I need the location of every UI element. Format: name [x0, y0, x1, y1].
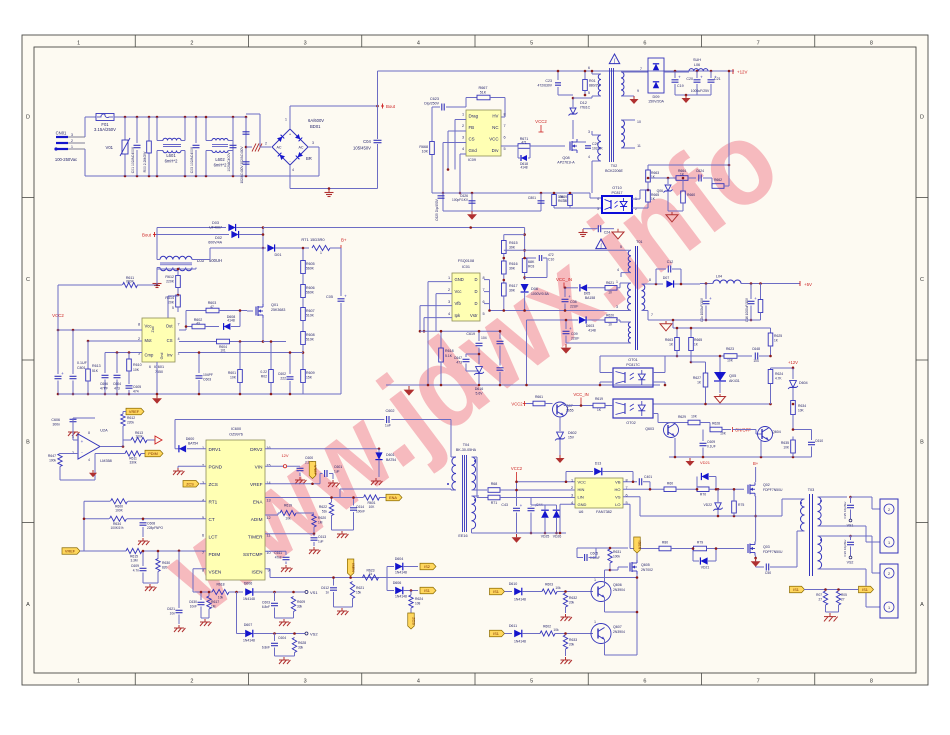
svg-text:8: 8 — [870, 41, 873, 47]
svg-text:NC: NC — [492, 125, 498, 130]
svg-text:C614: C614 — [356, 505, 364, 509]
svg-text:13: 13 — [266, 498, 270, 502]
svg-text:10k: 10k — [555, 586, 561, 590]
svg-text:R621: R621 — [606, 281, 614, 285]
svg-text:101: 101 — [220, 349, 226, 353]
diode D600 BAT54 — [187, 448, 206, 450]
wire VREF pin14 — [265, 483, 320, 485]
resistor R634 10K — [791, 401, 796, 415]
ground D601 — [375, 478, 377, 481]
transformer T04 core — [462, 455, 464, 532]
wire VS row — [623, 496, 640, 498]
capacitor C10 472 — [525, 257, 536, 259]
wire OT01 collector — [653, 372, 665, 374]
resistor R602b 10k — [540, 631, 555, 636]
svg-text:3: 3 — [616, 305, 618, 309]
svg-text:8: 8 — [503, 113, 505, 117]
resistor R635 10K — [791, 440, 796, 453]
resistor R609 15K — [302, 345, 304, 371]
resistor R671 471 — [501, 145, 518, 147]
svg-text:Bout: Bout — [386, 104, 396, 109]
ground PGND — [177, 468, 179, 471]
svg-text:472/630V: 472/630V — [537, 84, 552, 88]
svg-text:U2A: U2A — [100, 429, 108, 433]
svg-text:510K: 510K — [306, 338, 315, 342]
resistor R625 1K — [770, 328, 772, 333]
svg-text:R605: R605 — [306, 262, 315, 266]
svg-text:2: 2 — [571, 486, 573, 490]
wire T04 return to ENA area — [340, 488, 451, 490]
capacitor C603 104PF — [198, 353, 200, 374]
net flag IS1 left — [790, 586, 805, 593]
svg-text:6: 6 — [588, 66, 590, 70]
svg-text:R610: R610 — [133, 363, 142, 367]
svg-text:4: 4 — [597, 197, 599, 201]
net flag IS1 — [420, 587, 436, 594]
svg-text:R607: R607 — [306, 309, 315, 313]
resistor R612b 220k — [122, 412, 124, 415]
svg-text:7550: 7550 — [155, 370, 163, 374]
diode VD25 — [541, 510, 549, 518]
svg-text:B+: B+ — [341, 238, 347, 243]
capacitor C401 — [638, 478, 640, 485]
svg-text:R668: R668 — [419, 145, 428, 149]
svg-text:7: 7 — [177, 322, 179, 326]
net flag IS1 q607 — [490, 630, 505, 637]
svg-text:4: 4 — [417, 679, 420, 685]
svg-text:150V/20A: 150V/20A — [648, 100, 664, 104]
capacitor C609 0.1UF — [674, 438, 676, 457]
capacitor C05 — [340, 248, 342, 296]
svg-text:68K: 68K — [528, 260, 535, 264]
capacitor C610 — [811, 430, 813, 441]
svg-text:3: 3 — [71, 133, 73, 137]
svg-text:6A/600V: 6A/600V — [308, 118, 324, 123]
svg-text:R619: R619 — [284, 504, 292, 508]
svg-text:U6: U6 — [579, 510, 584, 514]
shunt reg Q05 AK431 — [719, 356, 721, 372]
capacitor C20 1000uF/25V — [696, 70, 699, 73]
net label Bout — [381, 105, 384, 107]
svg-text:R05: R05 — [841, 593, 847, 597]
svg-text:R621: R621 — [356, 586, 364, 590]
svg-text:2: 2 — [888, 508, 890, 512]
svg-text:R627: R627 — [693, 376, 701, 380]
resistor R662 — [712, 184, 724, 189]
svg-text:Drv: Drv — [492, 148, 500, 153]
transformer T04 primary — [452, 457, 456, 490]
capacitor C0x X2 pair — [245, 117, 247, 176]
svg-text:C19: C19 — [677, 84, 684, 88]
svg-text:+: + — [678, 75, 681, 80]
svg-text:C25 10p/6kv: C25 10p/6kv — [843, 501, 847, 518]
zener D12 ITB1C — [570, 108, 576, 114]
svg-text:2: 2 — [448, 288, 450, 292]
svg-text:IC601: IC601 — [154, 365, 164, 369]
svg-text:47PF: 47PF — [100, 387, 108, 391]
snubber C23 472/630V — [557, 71, 559, 80]
resistor R665b 1K — [690, 328, 692, 338]
svg-text:1uF: 1uF — [385, 424, 392, 428]
resistor R617b 1M — [208, 592, 210, 596]
svg-text:1uF: 1uF — [334, 470, 340, 474]
svg-text:1k: 1k — [369, 572, 373, 576]
svg-text:AP2761I-A: AP2761I-A — [557, 161, 575, 165]
resistor R647 100k — [60, 453, 73, 455]
svg-text:VCC2: VCC2 — [535, 119, 547, 124]
svg-text:10K: 10K — [230, 376, 237, 380]
svg-text:VS2: VS2 — [847, 561, 854, 565]
svg-text:Q604: Q604 — [772, 430, 781, 434]
svg-text:C2x 1000uF/10V: C2x 1000uF/10V — [700, 297, 704, 322]
svg-text:100k: 100k — [49, 459, 56, 463]
svg-text:VCC2: VCC2 — [511, 466, 523, 471]
transformer T02 primary — [591, 71, 593, 74]
capacitor C624 — [698, 175, 700, 182]
svg-text:22UF: 22UF — [570, 305, 578, 309]
svg-text:5: 5 — [530, 679, 533, 685]
resistor R623 1k — [363, 575, 379, 580]
transformer T03 core — [809, 494, 811, 576]
ground 12V filter — [675, 94, 711, 96]
wire opamp out — [100, 446, 123, 448]
svg-text:Out: Out — [166, 323, 174, 328]
svg-text:6.8nF: 6.8nF — [262, 605, 270, 609]
ground L03 — [156, 280, 158, 284]
capacitor C647 473 — [465, 354, 467, 357]
svg-text:C648: C648 — [752, 347, 760, 351]
capacitor C19 — [674, 70, 677, 73]
wire bottom rail EMI — [85, 175, 319, 177]
optocoupler OT01 PC817C — [613, 368, 653, 387]
wire B+ rail to T01 — [504, 249, 629, 251]
wire standby fb rail — [648, 164, 729, 166]
transistor Q606 2N3904 — [591, 582, 611, 602]
svg-text:D600: D600 — [186, 437, 195, 441]
capacitor C609b 4.7n — [142, 551, 144, 566]
capacitor C648 104 — [754, 353, 756, 360]
svg-text:D03: D03 — [212, 221, 219, 225]
ground C608 — [142, 538, 144, 541]
transistor Q07 2655 — [553, 402, 568, 417]
ground C613 — [313, 547, 315, 550]
svg-text:PDIM: PDIM — [209, 552, 221, 557]
wire Vcc cluster rail — [420, 330, 500, 332]
svg-text:R603: R603 — [545, 583, 553, 587]
resistor R629 10K — [658, 422, 688, 424]
ground R633 — [565, 657, 567, 660]
svg-text:RT1: RT1 — [209, 499, 218, 504]
svg-text:C605: C605 — [590, 552, 598, 556]
svg-text:C624: C624 — [696, 169, 704, 173]
svg-text:220K: 220K — [166, 280, 175, 284]
wire C602 to T04 — [450, 420, 452, 458]
transistor Q604 — [755, 430, 757, 435]
transformer T01 secondary — [642, 284, 645, 311]
svg-text:D05: D05 — [584, 292, 591, 296]
svg-text:RT1 15D3R0: RT1 15D3R0 — [301, 237, 325, 242]
svg-text:4: 4 — [617, 268, 619, 272]
svg-text:228pFNPO: 228pFNPO — [147, 526, 163, 530]
gate drive R603 47 — [179, 329, 186, 331]
diode VD26 — [553, 510, 561, 518]
svg-text:10K: 10K — [798, 409, 805, 413]
svg-text:SSTCMP: SSTCMP — [243, 552, 263, 557]
svg-text:1: 1 — [77, 41, 80, 47]
svg-text:C605: C605 — [133, 385, 141, 389]
capacitor C12 — [655, 269, 657, 284]
svg-text:4: 4 — [292, 168, 294, 172]
diode D07 +5V — [650, 283, 663, 285]
svg-text:5.1K: 5.1K — [445, 354, 453, 358]
ground C603 R609 — [275, 617, 294, 619]
svg-text:10K: 10K — [783, 446, 790, 450]
resistor R613p 51K — [87, 341, 89, 369]
svg-text:+: + — [709, 296, 712, 301]
svg-text:Q08: Q08 — [562, 156, 569, 160]
svg-text:R602: R602 — [543, 625, 551, 629]
svg-text:0.5: 0.5 — [563, 199, 568, 203]
wire IS diode split — [379, 577, 388, 579]
rectifier D09 150V/20A — [638, 71, 648, 73]
svg-text:9: 9 — [637, 89, 639, 93]
diode D02 600V/4A — [231, 231, 238, 238]
diode D618 4148 — [517, 146, 519, 158]
varistor V01 — [124, 117, 126, 140]
svg-text:C630: C630 — [189, 600, 197, 604]
capacitor C603b 6.8nF — [274, 592, 276, 601]
resistor R670 10K — [553, 193, 555, 195]
resistor R607 510K — [302, 298, 304, 309]
wire OT01 cathode — [600, 381, 613, 383]
svg-text:Q05: Q05 — [729, 374, 736, 378]
svg-text:0.22: 0.22 — [260, 370, 267, 374]
capacitor C16 1000uF/10V — [750, 282, 753, 285]
wire inverting input — [73, 453, 78, 455]
svg-text:R624: R624 — [775, 372, 783, 376]
svg-text:10K: 10K — [727, 359, 734, 363]
svg-text:6: 6 — [149, 365, 151, 369]
svg-text:2: 2 — [190, 679, 193, 685]
svg-text:BK-30-05HA: BK-30-05HA — [456, 448, 477, 452]
transformer T04 sec upper — [472, 457, 476, 490]
zener D604f — [790, 381, 797, 388]
capacitor C613 1uF — [311, 537, 318, 539]
wire standby gnd rail — [432, 192, 590, 194]
svg-text:472: 472 — [548, 253, 554, 257]
capacitor C43 — [513, 507, 520, 509]
resistor R622 51k — [331, 498, 333, 503]
capacitor C625 Dip/450V — [442, 193, 444, 211]
svg-text:R647: R647 — [48, 454, 56, 458]
svg-text:C23: C23 — [545, 79, 552, 83]
svg-text:Drag: Drag — [469, 114, 479, 119]
svg-text:VCC: VCC — [578, 479, 587, 484]
svg-text:B: B — [26, 439, 30, 445]
wire B standby top rail — [378, 70, 735, 72]
wire VSEN — [193, 568, 206, 570]
svg-text:27: 27 — [841, 598, 845, 602]
wire OT01 anode — [600, 372, 613, 374]
svg-text:27: 27 — [818, 598, 822, 602]
svg-text:1M: 1M — [318, 521, 323, 525]
wire chain top — [504, 234, 525, 236]
svg-text:R617: R617 — [211, 600, 219, 604]
connector CON1 — [880, 499, 898, 553]
svg-text:1: 1 — [888, 541, 890, 545]
ground C621 — [178, 625, 180, 628]
transformer T01 core — [635, 246, 637, 350]
svg-text:D602: D602 — [568, 431, 577, 435]
svg-text:CT: CT — [209, 517, 215, 522]
svg-text:Cmp: Cmp — [145, 353, 155, 358]
svg-text:15K: 15K — [306, 376, 313, 380]
svg-text:1N4148: 1N4148 — [395, 595, 407, 599]
transformer T04 sec lower — [472, 496, 476, 529]
svg-text:+: + — [569, 326, 572, 331]
resistor R663b 1K — [676, 328, 678, 338]
svg-text:1uF: 1uF — [318, 540, 324, 544]
svg-text:10K: 10K — [720, 432, 727, 436]
diode D601 BAT54 — [378, 447, 381, 450]
svg-text:C601: C601 — [334, 465, 342, 469]
svg-text:C603: C603 — [203, 378, 211, 382]
resistor R665s 0.5 — [569, 193, 571, 195]
svg-text:2: 2 — [138, 337, 140, 341]
wire ENA row — [265, 497, 363, 499]
resistor R664 1K — [676, 176, 688, 181]
svg-text:1: 1 — [616, 280, 618, 284]
svg-text:6: 6 — [503, 136, 505, 140]
svg-text:0.1UF: 0.1UF — [707, 445, 716, 449]
resistor R668 10K — [431, 107, 433, 141]
svg-text:D604: D604 — [395, 557, 404, 561]
diode D606c 1N4148 — [245, 588, 253, 596]
svg-text:R617: R617 — [509, 284, 518, 288]
svg-text:VSEN: VSEN — [209, 569, 222, 574]
ground standby — [471, 211, 473, 214]
svg-text:+: + — [81, 439, 84, 444]
wire FB CS loops — [455, 119, 466, 121]
svg-text:100K: 100K — [115, 509, 123, 513]
svg-text:HV: HV — [492, 114, 498, 119]
svg-text:R68: R68 — [491, 482, 498, 486]
svg-text:222: 222 — [280, 377, 286, 381]
svg-text:2: 2 — [888, 572, 890, 576]
svg-text:10: 10 — [608, 291, 612, 295]
ground standby fb — [668, 210, 683, 212]
svg-text:20k: 20k — [569, 643, 575, 647]
svg-text:D: D — [474, 277, 477, 282]
svg-text:4: 4 — [417, 41, 420, 47]
wire aux return row — [527, 319, 554, 321]
svg-text:15V: 15V — [568, 436, 575, 440]
resistor R660 — [682, 178, 684, 191]
net flag IS1 q606 — [490, 588, 505, 595]
wire secondary return — [648, 319, 761, 321]
svg-text:FB: FB — [469, 125, 475, 130]
svg-text:3: 3 — [312, 141, 314, 145]
svg-text:12V: 12V — [281, 453, 288, 458]
svg-text:4.7n: 4.7n — [133, 569, 139, 573]
MOSFET Q02 FDPF7N50U — [747, 485, 749, 494]
ground C600 — [299, 477, 301, 480]
svg-text:6: 6 — [202, 533, 204, 537]
svg-text:105/450V: 105/450V — [353, 146, 371, 151]
svg-text:GND: GND — [578, 502, 587, 507]
svg-text:1: 1 — [594, 620, 596, 624]
svg-text:D: D — [474, 301, 477, 306]
svg-text:R628: R628 — [298, 641, 306, 645]
wire Q07 collector emitter — [563, 404, 565, 406]
connector CON2 — [880, 564, 898, 618]
wire VCC2 to U6 — [517, 481, 576, 483]
svg-text:10: 10 — [637, 120, 641, 124]
svg-text:10K: 10K — [133, 368, 140, 372]
resistor R68 — [477, 497, 487, 499]
svg-text:C613: C613 — [318, 535, 326, 539]
svg-text:5: 5 — [482, 312, 484, 316]
svg-text:1: 1 — [888, 606, 890, 610]
svg-text:IC09: IC09 — [468, 158, 476, 162]
svg-text:R03: R03 — [528, 265, 534, 269]
svg-text:330k: 330k — [130, 461, 137, 465]
svg-text:R80: R80 — [662, 541, 668, 545]
capacitor C621 10n — [178, 549, 181, 552]
ground Q05 — [719, 394, 721, 397]
transformer T02 secondary aux — [621, 120, 625, 148]
resistor R617 39K — [503, 274, 505, 283]
svg-text:102/AC400V: 102/AC400V — [227, 152, 231, 172]
svg-text:6mH*2: 6mH*2 — [165, 159, 178, 164]
svg-text:5.6V: 5.6V — [476, 392, 484, 396]
svg-text:R630: R630 — [162, 561, 170, 565]
wire EMI to bridge AC1 — [246, 113, 260, 115]
svg-text:C: C — [26, 277, 30, 283]
svg-text:8: 8 — [138, 322, 140, 326]
svg-text:10n: 10n — [170, 612, 176, 616]
svg-text:C16 1000uF/10V: C16 1000uF/10V — [745, 297, 749, 322]
ground opamp — [92, 463, 94, 477]
svg-text:22UF: 22UF — [571, 337, 579, 341]
svg-text:Q06: Q06 — [657, 189, 664, 193]
svg-text:5: 5 — [503, 147, 505, 151]
ground C601 — [332, 480, 334, 483]
svg-text:R622: R622 — [319, 505, 327, 509]
svg-text:1: 1 — [571, 478, 573, 482]
svg-text:C600: C600 — [305, 456, 313, 460]
svg-text:3: 3 — [571, 493, 573, 497]
svg-text:ITB1C: ITB1C — [580, 106, 591, 110]
svg-text:D06: D06 — [531, 287, 538, 291]
svg-text:15k: 15k — [356, 591, 362, 595]
svg-text:BAT54: BAT54 — [188, 442, 198, 446]
capacitor C606 47PF — [104, 353, 106, 374]
svg-text:C611: C611 — [274, 551, 282, 555]
svg-text:473: 473 — [456, 361, 462, 365]
resistor R616 39K — [503, 254, 505, 262]
resistor R75 — [733, 489, 735, 500]
svg-text:R667: R667 — [478, 86, 487, 90]
diode D13 — [565, 472, 567, 482]
svg-text:+12V: +12V — [737, 70, 747, 75]
chassis ground stub — [246, 146, 252, 148]
svg-text:5: 5 — [588, 91, 590, 95]
svg-text:39K: 39K — [509, 289, 516, 293]
wire ISEN long — [265, 568, 270, 570]
svg-text:R635: R635 — [781, 441, 789, 445]
svg-text:VD21: VD21 — [700, 460, 711, 465]
